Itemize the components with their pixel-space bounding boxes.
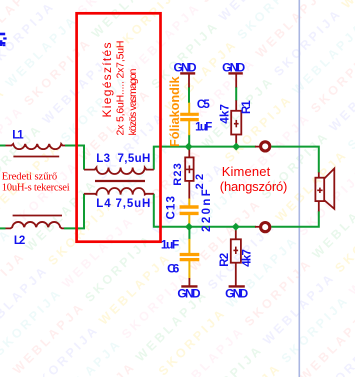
svg-text:R1: R1: [241, 100, 253, 114]
note Kimenet line 2 (red): [220, 179, 288, 194]
label 4k7 (R1, rotated): [219, 104, 231, 124]
label 4k7 (R2, rotated): [242, 249, 254, 267]
svg-text:220nF: 220nF: [201, 189, 213, 232]
wire L3 right lead up to top bus: [154, 147, 256, 170]
label Folia capacitors note (rotated orange): [167, 76, 182, 147]
svg-text:22: 22: [194, 174, 206, 190]
resistor R1: [231, 100, 241, 146]
wire L2 input stub (left edge): [0, 227, 6, 229]
svg-text:R23: R23: [172, 163, 184, 186]
svg-text:1uF: 1uF: [195, 122, 212, 134]
red annotation box around L3/L4: [77, 13, 161, 241]
label 220nF (C13, rotated): [201, 189, 213, 232]
svg-text:C13: C13: [166, 196, 178, 219]
svg-text:4k7: 4k7: [242, 249, 254, 267]
svg-text:GND: GND: [222, 60, 245, 74]
capacitor C5: [180, 103, 199, 136]
label L1: [12, 130, 24, 142]
terminal pad (output +): [255, 142, 270, 151]
svg-text:L1: L1: [12, 130, 24, 142]
label GND (R1): [222, 60, 245, 74]
wire C5 bottom to bus: [188, 135, 190, 147]
speaker LS1: [315, 169, 334, 212]
clipped blue label fragment at left edge: [0, 33, 7, 46]
label C13 (rotated): [166, 196, 178, 219]
wire L1 input stub (left edge): [0, 145, 6, 147]
vertical pale-blue page rule: [298, 0, 300, 377]
capacitor C6: [180, 239, 200, 279]
label L3 7,5uH: [96, 153, 150, 165]
inductor L2: [6, 216, 65, 229]
svg-text:Kiegészítés: Kiegészítés: [100, 43, 114, 118]
wire L4 left lead to L2: [64, 194, 84, 229]
shared iron core of L3/L4: [95, 180, 145, 182]
svg-text:közös vasmagon: közös vasmagon: [127, 68, 139, 135]
inductor L3: [84, 168, 154, 175]
label R1 (rotated): [241, 100, 253, 114]
svg-text:10uH-s tekercsei: 10uH-s tekercsei: [2, 182, 70, 193]
label R23 (rotated): [172, 163, 184, 186]
label L4 7,5uH: [96, 198, 150, 210]
wire C6 top net segment: [188, 227, 190, 239]
wire top bus terminal to speaker: [271, 147, 319, 173]
junction node R2 on bottom bus: [232, 223, 240, 231]
label GND (C5): [174, 60, 197, 74]
resistor R23: [185, 148, 193, 199]
junction node R1 on top bus: [232, 143, 240, 151]
wire C5 net segment: [188, 87, 190, 103]
wire L4 right lead down to bottom bus: [154, 194, 256, 227]
svg-text:4k7: 4k7: [219, 104, 231, 124]
label 1uF (C5): [195, 122, 212, 134]
svg-text:C6: C6: [167, 261, 180, 275]
inductor L4: [84, 188, 154, 195]
svg-text:GND: GND: [225, 287, 248, 301]
ground symbol for C5 (top left GND): [180, 73, 195, 87]
ground symbol for R2 (bottom right GND): [229, 285, 245, 287]
note Kiegeszites line 2 (rotated red): [115, 41, 127, 136]
note Eredeti szuro line 1 (red serif): [2, 172, 58, 183]
label GND (C6): [177, 287, 200, 301]
svg-text:Eredeti szűrő: Eredeti szűrő: [2, 172, 58, 183]
terminal pad (output -): [255, 223, 270, 232]
svg-text:(hangszóró): (hangszóró): [220, 179, 288, 194]
svg-text:GND: GND: [177, 287, 200, 301]
label GND (R2): [225, 287, 248, 301]
ground symbol for C6 (bottom left GND): [181, 278, 197, 286]
capacitor C13: [180, 199, 199, 227]
svg-text:L4 7,5uH: L4 7,5uH: [96, 198, 150, 210]
wire L1 to box vertical: [65, 146, 84, 170]
label C6: [167, 261, 180, 275]
svg-text:R2: R2: [219, 253, 231, 267]
note Kiegeszites line 1 (rotated red): [100, 43, 114, 118]
svg-text:L3 7,5uH: L3 7,5uH: [96, 153, 150, 165]
junction node C5/R23 on top bus: [185, 143, 193, 151]
label R2 (rotated): [219, 253, 231, 267]
svg-text:Fóliakondik: Fóliakondik: [167, 76, 182, 147]
svg-text:1uF: 1uF: [161, 237, 179, 251]
note Eredeti szuro line 2 (red serif): [2, 182, 70, 193]
label 22 (R23, rotated): [194, 174, 206, 190]
note Kiegeszites line 3 (rotated red): [127, 68, 139, 135]
svg-text:L2: L2: [14, 235, 25, 247]
wire R1 top net segment: [235, 87, 237, 101]
svg-text:Kimenet: Kimenet: [222, 164, 271, 179]
wire bottom bus terminal to speaker: [271, 211, 319, 227]
svg-text:C5: C5: [197, 99, 210, 111]
junction node C13/C6 on bottom bus: [185, 223, 193, 231]
note Kimenet line 1 (red): [222, 164, 271, 179]
svg-text:2x 5,6uH..... 2x7,5uH: 2x 5,6uH..... 2x7,5uH: [115, 41, 127, 136]
resistor R2: [231, 227, 241, 286]
ground symbol for R1 (top right GND): [228, 73, 242, 87]
label 1uF (C6): [161, 237, 179, 251]
inductor L1: [6, 144, 66, 157]
label L2: [14, 235, 25, 247]
svg-text:GND: GND: [174, 60, 197, 74]
label C5: [197, 99, 210, 111]
